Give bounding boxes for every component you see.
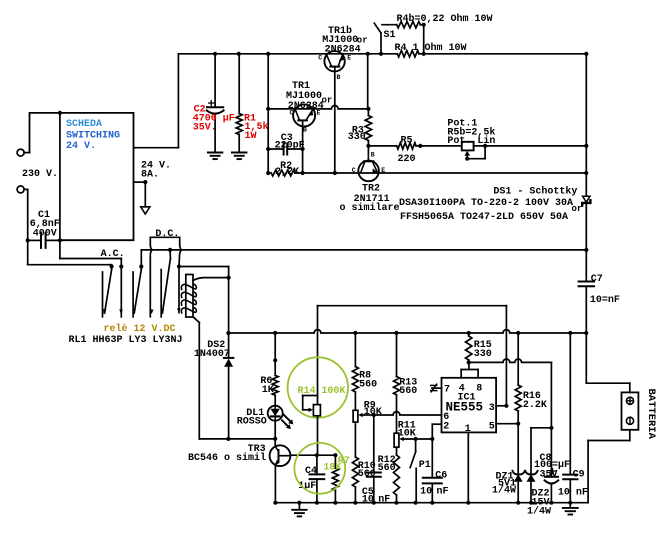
svg-text:C6: C6: [435, 470, 447, 481]
resistor R3: [365, 109, 371, 148]
wire DC line L1: [141, 248, 586, 252]
svg-text:1N4007: 1N4007: [194, 349, 230, 360]
wire 555 tab stem: [468, 362, 470, 369]
svg-text:1K: 1K: [262, 385, 274, 396]
wire coil top: [193, 278, 229, 281]
resistor R7: [332, 455, 338, 503]
svg-text:35V: 35V: [540, 469, 558, 480]
resistor R2: [266, 170, 305, 176]
svg-text:or: or: [572, 204, 583, 214]
svg-text:E: E: [381, 167, 385, 174]
label C3: [275, 133, 305, 152]
label A.C.: [101, 249, 125, 260]
wire TR2 rail: [303, 171, 589, 175]
svg-text:D.C.: D.C.: [155, 229, 179, 240]
capacitor C9: [563, 333, 577, 503]
resistor R6: [272, 333, 278, 406]
label R4b: [397, 13, 493, 25]
wire TR3 emitter: [274, 466, 276, 503]
svg-text:2N6284: 2N6284: [325, 45, 361, 56]
wire battery positive: [586, 333, 630, 392]
svg-text:o similare: o similare: [340, 202, 400, 214]
svg-text:SCHEDA: SCHEDA: [66, 119, 102, 130]
svg-text:NE555: NE555: [446, 401, 484, 415]
label rele: [104, 323, 176, 335]
wire R14 vertical: [317, 306, 319, 405]
wire L1 left corner: [139, 250, 143, 269]
label 24V 8A output: [141, 160, 171, 180]
label C8: [534, 453, 570, 481]
pushbutton P1: [410, 437, 418, 503]
ground C2: [208, 153, 223, 160]
pin 5 label: [489, 422, 495, 433]
svg-text:10: 10: [420, 487, 432, 498]
wire R14 to node: [317, 416, 319, 455]
label C4: [298, 466, 317, 492]
wire collector vertical: [267, 54, 269, 173]
label 24 V. blue: [66, 141, 96, 152]
relay contact d: [132, 272, 134, 317]
wire pin3 top link: [318, 305, 507, 307]
svg-text:P1: P1: [419, 460, 431, 471]
wire top 24V rail: [178, 53, 586, 55]
svg-text:nF: nF: [437, 487, 449, 498]
svg-text:560: 560: [378, 463, 396, 474]
label R2: [275, 161, 299, 178]
svg-text:B: B: [303, 127, 307, 134]
diode DS2: [224, 358, 233, 439]
label R4: [395, 42, 467, 54]
svg-text:1/4W: 1/4W: [527, 506, 551, 518]
resistor R12: [394, 447, 400, 503]
wire pin 1: [467, 432, 469, 502]
svg-text:C: C: [318, 55, 322, 62]
capacitor C6: [423, 437, 442, 503]
green circle R7: [294, 443, 345, 494]
svg-text:24 V.: 24 V.: [66, 141, 96, 152]
svg-text:E: E: [347, 55, 351, 62]
svg-text:10=nF: 10=nF: [590, 295, 620, 306]
relay contact g: [160, 270, 162, 317]
label R14: [298, 386, 346, 397]
label C5: [362, 487, 390, 505]
svg-text:R4 1 Ohm 10W: R4 1 Ohm 10W: [395, 42, 467, 54]
svg-text:C: C: [352, 167, 356, 174]
wire supply rail lower: [226, 330, 588, 336]
green circle R14: [288, 357, 348, 417]
svg-text:C4: C4: [305, 466, 317, 477]
resistor R5: [368, 143, 422, 149]
pin 4 label: [459, 384, 465, 395]
svg-text:BC546 o simil: BC546 o simil: [188, 452, 266, 464]
IC NE555 box: [442, 370, 497, 433]
wire reset rail: [469, 359, 554, 430]
svg-text:DSA30I100PA TO-220-2 100V 30A: DSA30I100PA TO-220-2 100V 30A: [399, 198, 573, 209]
label TR1b: [322, 25, 367, 56]
label SCHEDA: [66, 119, 102, 130]
label Pot.1: [447, 118, 495, 147]
resistor R4 (1 Ohm 10W): [397, 51, 419, 57]
svg-text:R5: R5: [401, 136, 413, 147]
label R10: [358, 461, 376, 480]
label C6: [420, 470, 448, 497]
svg-text:or: or: [322, 96, 333, 106]
label C2: [193, 104, 235, 133]
relay contact b: [103, 264, 114, 313]
wire pin 2: [432, 424, 441, 439]
svg-text:BATTERIA: BATTERIA: [645, 389, 657, 440]
svg-text:A.C.: A.C.: [101, 249, 125, 260]
label R6: [260, 376, 273, 396]
DC bracket: [150, 236, 179, 238]
label R12: [378, 455, 396, 474]
ground R1: [232, 153, 247, 160]
wire battery negative: [588, 430, 630, 503]
svg-text:2: 2: [443, 422, 449, 433]
label TR2 pins: [352, 152, 386, 175]
wire 24V feed from board: [134, 54, 179, 148]
svg-text:330: 330: [348, 132, 366, 143]
svg-text:5: 5: [489, 422, 495, 433]
label R9: [364, 400, 382, 418]
relay contact a: [102, 272, 104, 317]
svg-text:8: 8: [476, 384, 482, 395]
switch S1: [374, 23, 396, 54]
label R16: [523, 391, 547, 411]
label DZ2: [527, 488, 551, 517]
wire pin 6: [374, 412, 442, 415]
relay contact c: [119, 264, 123, 316]
wire TR3 collector line: [199, 437, 277, 441]
svg-text:nF: nF: [378, 494, 390, 505]
pin 2 label: [443, 422, 449, 433]
label TR1b pins: [318, 55, 351, 81]
resistor R15: [466, 333, 472, 365]
svg-text:relè 12 V.DC: relè 12 V.DC: [104, 323, 176, 335]
svg-text:3: 3: [489, 403, 495, 414]
svg-text:330: 330: [474, 349, 492, 360]
trimmer R9: [353, 410, 374, 422]
svg-text:35V.: 35V.: [193, 122, 217, 133]
relay contact i: [177, 237, 182, 312]
relay contact h: [161, 250, 170, 314]
label RL1: [69, 335, 183, 346]
label NE555: [446, 401, 484, 415]
wire TR1b base down: [334, 71, 336, 173]
svg-text:B: B: [371, 152, 375, 159]
junction dots on top rail: [213, 52, 588, 56]
wire 230V line to AC contact: [26, 189, 112, 266]
resistor R13: [394, 333, 400, 433]
wire pin 3 vertical: [505, 306, 507, 406]
label SWITCHING: [66, 131, 120, 142]
capacitor C3: [266, 144, 305, 155]
label R15: [474, 340, 492, 360]
wire LED to TR3: [274, 421, 276, 446]
svg-text:C7: C7: [591, 274, 603, 285]
relay contact f: [150, 237, 154, 316]
label DS1: [399, 185, 582, 223]
terminal 230V bottom: [17, 186, 28, 193]
relay coil RL1: [181, 275, 196, 318]
label TR1: [286, 81, 332, 112]
svg-text:C9: C9: [573, 469, 585, 480]
pin 3 label: [489, 403, 495, 414]
switching board SCHEDA box: [30, 111, 134, 240]
svg-text:DS1 - Schottky: DS1 - Schottky: [493, 185, 577, 197]
pin 7 label: [444, 385, 450, 396]
label C9: [558, 469, 588, 498]
Pot.1 wiper: [464, 146, 485, 161]
label R1: [244, 113, 269, 142]
transistor TR3: [270, 445, 291, 466]
ground symbol right: [563, 503, 578, 515]
svg-text:2.2K: 2.2K: [523, 400, 547, 411]
wire NO contact to coil node: [179, 267, 229, 278]
label P1: [419, 460, 431, 471]
wire pin 3: [496, 404, 508, 408]
svg-text:2N6284: 2N6284: [288, 101, 324, 112]
potentiometer Pot.1: [420, 142, 588, 151]
svg-text:220pF: 220pF: [275, 141, 305, 152]
terminal 230V top: [17, 149, 29, 156]
pin 1 label: [465, 424, 471, 435]
wire E link vertical: [367, 54, 369, 109]
svg-text:10 nF: 10 nF: [558, 488, 588, 499]
ground open-arrow symbol: [141, 207, 150, 214]
label R3: [348, 125, 366, 143]
wire TR3 base node: [290, 453, 337, 457]
pin 7 NC stub: [431, 384, 442, 392]
trimmer R11: [394, 433, 432, 447]
trimmer R14: [303, 396, 321, 416]
wire right vertical top: [585, 54, 587, 196]
label C1: [30, 210, 60, 240]
svg-text:FFSH5065A TO247-2LD 650V 50A: FFSH5065A TO247-2LD 650V 50A: [400, 212, 568, 223]
svg-text:18K: 18K: [323, 462, 341, 473]
label C7: [590, 274, 620, 306]
resistor R4b (0,22 Ohm 10W): [397, 22, 426, 54]
transistor TR2: [358, 146, 379, 181]
transistor TR1b: [324, 51, 344, 71]
svg-text:S1: S1: [384, 30, 396, 41]
transistor TR1: [293, 104, 315, 126]
LED DL1: [268, 406, 294, 429]
svg-text:10K: 10K: [398, 429, 416, 440]
label TR3: [188, 444, 266, 464]
label DZ1: [492, 472, 516, 497]
label R5: [398, 136, 416, 166]
svg-text:220: 220: [398, 154, 416, 165]
pin 8 label: [476, 384, 482, 395]
svg-text:1W: 1W: [245, 131, 257, 142]
wire board 0V stub: [134, 180, 148, 207]
capacitor C2 electrolytic: [207, 54, 224, 152]
capacitor C7: [579, 282, 595, 334]
label IC1: [458, 392, 476, 403]
svg-text:R4b=0,22 Ohm 10W: R4b=0,22 Ohm 10W: [397, 13, 493, 25]
wire right vertical mid: [584, 203, 588, 281]
svg-text:ROSSO: ROSSO: [237, 417, 267, 428]
svg-text:R14: R14: [298, 386, 316, 397]
capacitor C4: [310, 455, 325, 503]
label BATTERIA: [645, 389, 657, 440]
wire DS2 vertical: [227, 276, 231, 357]
svg-text:560: 560: [399, 386, 417, 397]
svg-text:B: B: [337, 74, 341, 81]
svg-text:or: or: [357, 36, 368, 46]
wire ground rail: [273, 501, 588, 505]
label S1: [384, 30, 396, 41]
label TR2: [340, 184, 400, 214]
capacitor C8 electrolytic: [545, 428, 559, 503]
svg-text:400V: 400V: [33, 229, 57, 240]
svg-text:4: 4: [459, 384, 465, 395]
svg-text:100K: 100K: [321, 386, 345, 397]
capacitor C1: [28, 233, 62, 248]
label R8: [359, 370, 377, 390]
ground symbol left: [292, 503, 307, 517]
svg-text:230 V.: 230 V.: [22, 169, 58, 180]
label R11: [398, 421, 416, 440]
label DS2: [194, 340, 230, 360]
label DL1: [237, 408, 267, 428]
zener DZ2: [525, 428, 551, 503]
svg-text:7: 7: [444, 385, 450, 396]
capacitor C5: [367, 413, 381, 503]
label R13: [399, 378, 417, 397]
wire TR1 C-E line: [266, 105, 370, 111]
svg-text:2,2K: 2,2K: [275, 167, 299, 178]
label 230 V.: [22, 169, 58, 180]
wire pin 5: [496, 422, 520, 426]
relay contact e: [133, 267, 142, 314]
svg-text:8A.: 8A.: [141, 170, 159, 181]
wire TR1 base down: [302, 126, 304, 173]
battery terminal block: [622, 392, 639, 429]
svg-text:RL1 HH63P LY3 LY3NJ: RL1 HH63P LY3 LY3NJ: [69, 335, 183, 346]
resistor R1: [236, 54, 242, 152]
label TR1 pins: [290, 110, 321, 134]
pin 6 label: [443, 412, 449, 423]
resistor R16: [515, 333, 521, 424]
zener DZ1: [513, 424, 525, 503]
label R7: [323, 456, 349, 474]
svg-text:1/4W: 1/4W: [492, 484, 516, 496]
resistor R10: [352, 422, 358, 503]
resistor R8: [352, 333, 358, 410]
label D.C.: [155, 229, 179, 240]
wire AC line 1: [60, 241, 121, 267]
wire coil bottom: [193, 317, 199, 439]
svg-text:Pot. Lin: Pot. Lin: [447, 135, 495, 147]
diode DS1 schottky: [582, 196, 590, 205]
svg-text:560: 560: [359, 379, 377, 390]
